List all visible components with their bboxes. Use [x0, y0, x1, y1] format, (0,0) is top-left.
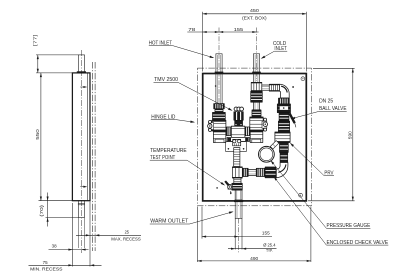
dimension 590 right — [308, 68, 355, 201]
bottom run ribbed union left — [242, 168, 248, 176]
lid screw top right — [301, 77, 305, 81]
gauge connection stub — [270, 141, 279, 150]
hot pipe bulkhead at box top — [215, 72, 224, 74]
bottom run ribbed union right — [256, 168, 265, 176]
svg-text:(70): (70) — [39, 205, 44, 217]
svg-text:490: 490 — [250, 256, 258, 261]
TMV head adjustment circles — [234, 107, 243, 111]
svg-text:450: 450 — [250, 8, 260, 13]
small dot near test point — [216, 187, 218, 189]
cold line drain knob — [262, 118, 267, 131]
side view fixing arrow upper — [80, 86, 87, 88]
wall opening dash-dot frame — [198, 68, 312, 206]
side pipe edge extension lines below — [77, 218, 79, 248]
svg-text:[77]: [77] — [32, 35, 37, 46]
right branch ring fitting A — [279, 113, 289, 121]
TMV left port hex — [226, 127, 231, 136]
label HINGE LID — [151, 114, 195, 123]
lid screw bottom right — [299, 193, 303, 197]
warm outlet pipe below box — [235, 201, 242, 218]
dimension 550 box height — [35, 73, 73, 201]
warm line tee — [232, 167, 242, 178]
side view pipe centerline — [80, 50, 82, 253]
svg-text:TYP.: TYP. — [266, 248, 273, 253]
warm pipe edge extension lines — [234, 218, 236, 249]
warm line union below tee — [234, 178, 241, 183]
front box enclosure — [203, 74, 307, 201]
dimension (70) bottom pipe projection — [39, 193, 78, 227]
hot line isolating valve body — [212, 120, 226, 131]
DN25 ball valve body — [277, 104, 290, 113]
svg-text:TMV 2500: TMV 2500 — [154, 77, 178, 83]
dimension 75 MIN. RECESS — [29, 260, 102, 272]
cold inlet pipe — [253, 54, 259, 83]
svg-text:MAX. RECESS: MAX. RECESS — [111, 236, 141, 241]
right branch lower ring C — [279, 143, 288, 153]
cold pipe centerline — [256, 28, 258, 82]
warm line pipe to box bottom — [235, 190, 242, 200]
cold line compact fitting — [252, 110, 261, 117]
side view bottom pipe nut — [78, 202, 85, 204]
PRV body — [275, 132, 290, 143]
side view door face line — [86, 73, 88, 200]
svg-text:38: 38 — [52, 244, 57, 249]
cold port lower nut — [252, 139, 261, 142]
hot line upper union nut — [214, 104, 225, 109]
TMV knurled cap — [234, 112, 244, 121]
svg-text:MIN. RECESS: MIN. RECESS — [30, 267, 62, 272]
side view fixing arrow lower — [80, 186, 87, 188]
label PRESSURE GAUGE — [270, 159, 371, 229]
small dot on hot pipe — [215, 85, 217, 87]
TMV right port hex — [245, 127, 250, 136]
svg-text:(EXT. BOX): (EXT. BOX) — [242, 16, 267, 21]
svg-text:25: 25 — [125, 230, 130, 235]
cold line tee fitting — [251, 82, 262, 91]
cold line ring stack — [251, 91, 263, 102]
hot pipe centerline — [218, 28, 220, 104]
svg-text:590: 590 — [347, 131, 352, 139]
hot inlet pipe — [216, 54, 222, 104]
label HOT INLET — [149, 40, 215, 59]
svg-text:75: 75 — [43, 260, 48, 265]
extension line from box interior for 38/75 dims — [72, 203, 74, 267]
temperature test point side stub — [224, 181, 232, 195]
label TEMPERATURE TEST POINT — [150, 148, 226, 186]
bottom elbow right — [276, 163, 288, 178]
label DN 25 BALL VALVE — [290, 98, 347, 120]
label COLD INLET — [260, 41, 287, 60]
TMV mounting plate — [226, 142, 247, 152]
extension line box front edge down — [89, 202, 91, 267]
cold pipe bulkhead at box top — [252, 72, 261, 74]
cold line isolating valve body — [250, 117, 263, 131]
svg-text:Ø 25.4: Ø 25.4 — [263, 243, 276, 248]
TMV bottom flange — [227, 137, 249, 141]
side view box enclosure — [72, 73, 90, 201]
right branch ring fitting B — [278, 121, 289, 132]
label PRV — [289, 142, 334, 177]
svg-text:550: 550 — [35, 129, 40, 140]
TMV neck — [235, 120, 243, 126]
cold line inlet port block — [250, 131, 263, 143]
svg-text:DN 25: DN 25 — [319, 98, 333, 104]
dimension 25 MAX. RECESS — [76, 230, 141, 242]
TMV body — [231, 126, 245, 137]
side view wall line dash-dot near — [91, 62, 93, 251]
hot line inlet port block — [213, 131, 225, 143]
dimension 490 bottom — [197, 207, 311, 263]
dimension 450 (EXT. BOX) — [203, 8, 307, 71]
side view top pipe (hot/cold inlet) — [78, 55, 84, 73]
pressure gauge — [259, 146, 275, 162]
svg-text:WARM OUTLET: WARM OUTLET — [150, 218, 189, 224]
hot port lower nut — [215, 139, 224, 142]
small dot on cold branch — [292, 86, 294, 88]
TMV outlet pipe — [234, 148, 240, 167]
dimension 78 / 155 top — [187, 27, 258, 33]
side view bottom pipe (warm outlet) — [78, 201, 84, 218]
temperature test point body — [232, 183, 243, 190]
warm pipe bulkhead at box bottom — [234, 200, 243, 202]
warm pipe centerline — [238, 219, 240, 254]
cold branch pipe to right — [262, 85, 270, 90]
svg-text:TEMPERATURE: TEMPERATURE — [150, 148, 187, 154]
hot line union coupling — [212, 112, 225, 120]
TMV outlet union — [233, 139, 241, 145]
label ENCLOSED CHECK VALVE — [273, 176, 389, 246]
cold branch ribbed union — [269, 84, 279, 91]
enclosed check valve body — [265, 167, 276, 178]
dimension diameter 25.4 TYP. — [228, 243, 277, 253]
dimension [77] side pipe projection — [32, 35, 78, 73]
dimension 38 pipe offset — [49, 244, 89, 251]
right branch union below elbow — [278, 98, 289, 104]
dimension 155 bottom — [202, 207, 272, 239]
hot line drain knob — [208, 120, 214, 131]
svg-text:155: 155 — [234, 27, 244, 32]
cold branch elbow — [280, 84, 290, 98]
svg-text:78: 78 — [188, 27, 196, 32]
cold line pipe — [253, 102, 259, 110]
side view top bulkhead fitting — [77, 71, 86, 73]
hot line small hex — [215, 109, 223, 112]
bottom run pipe — [248, 170, 256, 176]
label WARM OUTLET — [150, 210, 234, 224]
side view wall line dash-dot far — [94, 62, 96, 251]
svg-text:155: 155 — [262, 231, 270, 236]
label TMV 2500 — [154, 77, 234, 112]
ball valve lever handle — [288, 113, 296, 128]
right branch lower ring D — [280, 153, 288, 163]
